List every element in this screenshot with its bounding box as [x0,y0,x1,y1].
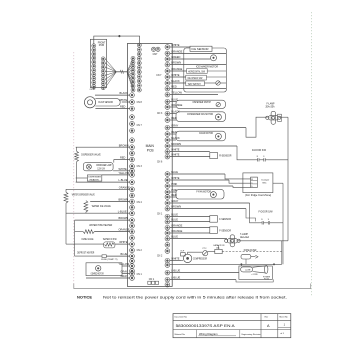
svg-text:CN7: CN7 [153,53,158,56]
svg-text:BLUE: BLUE [171,235,178,239]
condenser fan motor M2 [215,114,221,120]
svg-text:BROWN: BROWN [119,198,129,202]
water in switch label [103,238,117,241]
svg-text:Sheet No: Sheet No [279,315,288,318]
svg-text:CN 6: CN 6 [157,162,163,164]
OLP protector [180,251,185,256]
thermal fuse F1 [75,252,130,261]
svg-text:5830000013397S ASP EN A: 5830000013397S ASP EN A [176,323,235,328]
svg-text:120V 1W: 120V 1W [97,169,105,171]
svg-text:CN 7: CN 7 [156,75,162,77]
svg-text:L-BLUE: L-BLUE [119,178,128,182]
cube valve heater coil [75,228,130,234]
svg-text:YELLOW: YELLOW [119,171,130,175]
test switch contact [216,81,220,85]
svg-text:BLACK: BLACK [171,136,180,140]
ice check switch box [186,75,207,80]
wire ORANGE dispenser switch [170,103,183,107]
wire RED flow sensor [95,105,129,109]
wire YELLOW dispenser heater [102,171,130,175]
title block rev header [265,316,269,318]
svg-text:DISPENSER LAMP: DISPENSER LAMP [96,164,112,167]
svg-text:RED: RED [171,193,177,197]
wire WHITE to ice check switch [170,73,226,77]
svg-text:PCB: PCB [147,149,155,153]
svg-text:CN 4: CN 4 [137,202,143,204]
ice sensor box [190,46,212,51]
svg-text:F-DOOR S/W: F-DOOR S/W [259,212,274,214]
compressor wiring [181,252,202,260]
F-lamp symbol [266,111,281,124]
wire WHITE to compressor [170,257,181,261]
svg-text:HEATER: HEATER [90,178,100,181]
svg-text:CN 7: CN 7 [137,125,143,127]
wire BLUE to dispenser switch [170,98,178,102]
title block sheet 1 [284,322,286,326]
wire PTC to capacitor [208,251,215,253]
main PCB left connector column pins [130,93,135,281]
svg-text:GREEN: GREEN [171,55,180,59]
main PCB box U1 [127,44,172,287]
svg-text:DISPENSER VALVE: DISPENSER VALVE [81,154,101,157]
wire WHITE to ice sensor [170,43,190,47]
svg-text:BROWN: BROWN [119,216,129,220]
svg-text:WHITE: WHITE [171,153,180,157]
F-door switch label [259,212,274,214]
wire RED F-fan [170,193,177,197]
svg-text:WHITE: WHITE [119,167,128,171]
svg-text:CN 1: CN 1 [157,214,163,216]
svg-text:YELLOW: YELLOW [171,91,182,95]
damper label [262,178,270,184]
F-lamp label [266,103,275,109]
wire noise filter down [241,259,246,266]
svg-text:TEST SWITCH: TEST SWITCH [188,84,201,86]
svg-text:(For fridge Cool Zone): (For fridge Cool Zone) [245,194,271,197]
wire L-BLUE water ice valve [66,209,129,213]
title block document number [176,323,235,328]
F-sensor box 1 [210,216,232,223]
svg-text:DEFROST HEATER: DEFROST HEATER [77,251,95,254]
svg-text:GRAY: GRAY [171,199,178,203]
border frame bottom edge [74,284,311,289]
border frame right edge [311,12,313,296]
connector label CN3 right [157,113,163,115]
water in switch [75,240,130,248]
ice maker motor M1 [211,55,217,61]
svg-text:BLUE: BLUE [171,170,178,174]
wire front PCB to main PCB CN [94,36,140,44]
svg-text:F-SENSOR: F-SENSOR [219,230,231,232]
cube valve label [81,238,93,241]
wire BROWN to F-door area [170,205,256,222]
geared motor box [86,263,122,276]
defrost heater label [77,251,95,254]
svg-text:L-BLUE: L-BLUE [118,209,127,213]
damper assembly box [243,173,273,193]
svg-text:WHITE: WHITE [171,257,180,261]
ice maker motor label [196,65,218,68]
svg-text:GRAY: GRAY [121,274,128,278]
svg-text:2EA+2EA: 2EA+2EA [266,106,275,109]
svg-text:CN 1: CN 1 [137,274,143,276]
svg-text:BLUE: BLUE [121,252,128,256]
svg-text:ICE CHECK S/W: ICE CHECK S/W [187,78,203,80]
connector label CN2 [137,250,143,252]
svg-text:ORANGE: ORANGE [171,50,182,54]
svg-text:BLACK: BLACK [171,79,180,83]
wire BLACK to condenser fan [170,110,180,114]
right bus wire 2 [282,183,284,264]
main PCB label [146,144,155,153]
svg-text:RED: RED [171,85,177,89]
wire YELLOW icemaker [170,91,218,95]
wire RED to R-fan [170,130,177,134]
svg-text:CN-DC: CN-DC [90,89,96,91]
svg-text:BLACK: BLACK [171,110,180,114]
svg-text:L-BLUE: L-BLUE [171,269,180,273]
svg-text:CN 2: CN 2 [157,256,163,258]
T-lamp symbol [225,235,241,247]
wire WHITE to R-sensor [170,148,210,152]
svg-text:Engineering Revision: Engineering Revision [242,334,261,336]
svg-text:F-FAN MOTOR: F-FAN MOTOR [196,190,211,193]
R-fan motor M3 [215,133,221,139]
wire L-BLUE2 bottom [170,276,273,282]
noise filter label [244,250,257,252]
border frame left edge [73,52,75,289]
wire GRAY to F-door switch [170,199,260,223]
svg-text:CONDENSER FAN MOTOR: CONDENSER FAN MOTOR [187,113,213,116]
svg-text:Rev: Rev [265,316,269,318]
dispenser switch box [176,100,225,108]
R-door switch label [252,150,267,152]
R-fan motor box [176,131,225,141]
svg-text:R-FAN MOTOR: R-FAN MOTOR [199,132,213,135]
svg-text:GEARED MOTOR: GEARED MOTOR [91,272,104,275]
svg-text:PTC: PTC [203,248,208,250]
junction dot on top wire [119,35,121,37]
wire BLUE to damper [170,170,251,179]
wire BROWN to R-door switch [170,142,255,160]
wire BLUE2 F-sensor1 [170,218,210,222]
front PCB box U2 [90,39,106,89]
wire ORANGE2 F-sensor2 [170,229,210,233]
svg-text:CN 3: CN 3 [137,166,143,168]
dispenser switch contact [216,102,220,106]
wire BROWN icemaker [170,61,226,65]
svg-text:CN 8: CN 8 [137,102,143,104]
icemaker assembly box [184,48,227,92]
svg-text:Damper: Damper [262,178,270,181]
svg-text:WHITE: WHITE [171,176,180,180]
connector label CN6 right [157,162,163,164]
connector label CN1 right [157,214,163,216]
dispenser lamp box [83,163,113,171]
PTC starter [203,248,208,256]
svg-text:PCB: PCB [99,45,105,47]
ribbon cable trunk wire [116,70,127,74]
wire F-door switch to bus2 [273,222,284,224]
F-sensor box 2 [210,227,232,234]
title block engineering revision [242,334,261,336]
svg-text:R-DOOR S/W: R-DOOR S/W [252,150,267,152]
wire damper to bus2 [273,182,283,184]
svg-text:FLOW SENSOR: FLOW SENSOR [98,102,113,104]
wire BLACK R-fan [170,136,180,140]
wire BROWN water ice valve [86,198,129,202]
R-sensor box [210,152,232,158]
svg-text:CN 1: CN 1 [149,278,155,281]
title block frame [173,314,291,338]
svg-text:WATER ICE VALVE: WATER ICE VALVE [92,205,111,208]
wire T-lamp to bus [238,240,288,242]
connector label CN7b [137,125,143,127]
front PCB ribbon connector pins [101,57,105,90]
svg-text:OLP: OLP [180,251,185,253]
wire GRAY to R-door switch [170,117,268,137]
dispenser lamp LP1 [86,164,112,171]
water ice valve coil L3 [84,201,111,213]
svg-text:PINK: PINK [171,188,177,192]
title block document no header [175,315,188,318]
svg-text:WHITE: WHITE [119,240,128,244]
svg-text:T-LAMP: T-LAMP [240,233,248,236]
compressor motor M5 [183,254,207,262]
svg-text:YELLOW: YELLOW [119,262,130,266]
svg-text:BROWN: BROWN [171,142,181,146]
damper mode box [251,177,258,188]
svg-text:ORANGE: ORANGE [119,185,130,189]
svg-text:BLACK: BLACK [120,91,129,95]
main PCB connector pins CN9 left-top [131,56,135,92]
F-door switch SW2 [260,219,273,224]
svg-text:ORANGE: ORANGE [119,228,130,232]
T-lamp label [240,233,249,239]
wire WHITE dispenser lamp [113,167,129,171]
svg-text:L-LINE: L-LINE [245,269,251,271]
wire PINK to F-fan [170,188,178,192]
svg-text:NOISE FILTER: NOISE FILTER [244,250,257,252]
notice text [77,295,287,299]
connector label CN3 [137,166,143,168]
title block sheet of [280,333,284,335]
wire F-lamp to right bus [279,116,288,118]
wire BLACK to test switch [170,79,226,83]
power cord label [263,276,271,280]
dispenser heater box [76,175,102,182]
F-lamp holder box [278,114,282,121]
right bus wire 1 [282,117,288,264]
wire WHITE flow sensor [119,98,129,102]
wire GRAY geared motor [121,270,130,274]
svg-text:L-BLUE: L-BLUE [171,276,180,280]
wire ORANGE to ice sensor [170,50,226,54]
svg-text:MAIN: MAIN [146,144,155,148]
wire RED condenser fan [170,116,177,120]
svg-text:ICE MAKER MOTOR: ICE MAKER MOTOR [196,65,218,68]
wire L-BLUE to power box [170,269,239,273]
wire BROWN dispenser valve [76,143,130,147]
horizontal switch box [187,69,208,74]
flow sensor FS1 [84,97,120,108]
wire RED icemaker [170,85,226,89]
noise filter box [241,254,258,259]
svg-text:NOTICE: NOTICE [77,295,92,299]
ribbon cable fan from front PCB [105,59,116,88]
svg-text:F-SENSOR: F-SENSOR [219,219,231,221]
connector label CN7 right [156,75,162,77]
svg-text:BROWN: BROWN [119,143,129,147]
svg-text:CN 3: CN 3 [157,113,163,115]
wire ORANGE to F-sensor2 [170,224,210,228]
connector label CN2 right [157,256,163,258]
svg-text:+ CORD: + CORD [251,274,259,276]
svg-text:RED: RED [171,130,177,134]
svg-text:DISPENSER SWITCH: DISPENSER SWITCH [193,102,212,104]
svg-text:WHITE: WHITE [171,43,180,47]
wire R-door switch to bus [268,159,288,161]
wire GREEN to ice maker motor [170,55,211,59]
svg-text:WHITE: WHITE [171,73,180,77]
svg-text:HORIZONTAL S/W: HORIZONTAL S/W [188,70,206,73]
wire neutral row to bus [170,264,282,266]
wire YELLOW geared motor [119,262,130,266]
wire BLUE to F-sensor1 [170,213,210,217]
main PCB bottom connector CN1 [148,278,159,285]
wire GRAY2 bottom [86,274,129,278]
wire capacitor up [218,245,220,249]
left bus wire wph [74,220,76,256]
power assembly box [239,266,272,279]
connector label CN4 [137,202,143,204]
water dispenser valve coil L2 [64,189,75,244]
water pipe heater label [89,224,112,227]
svg-text:ICE SENSOR: ICE SENSOR [192,49,209,51]
condenser fan motor box [176,112,225,122]
connector label CN8 [137,102,143,104]
svg-text:WHITE: WHITE [171,148,180,152]
front PCB connector strip pins [92,44,96,89]
R-door switch SW1 [255,156,268,161]
svg-text:R-SENSOR: R-SENSOR [219,156,232,158]
title block rev value [267,324,270,328]
wire BROWN water pipe heater [75,216,130,220]
flow sensor tiny caption [90,89,96,91]
wire BLUE to T-lamp [170,235,227,239]
title block wiring diagram [198,332,236,336]
wire WHITE2 to R-sensor [170,153,210,157]
title block material no [175,333,186,336]
svg-text:COMPRESSOR: COMPRESSOR [193,258,207,260]
svg-text:ORANGE: ORANGE [171,229,182,233]
main PCB right connector column pins [165,45,170,287]
svg-text:DISPENSER: DISPENSER [88,177,101,179]
F-fan motor M4 [210,192,216,198]
dispenser valve coil [75,147,101,182]
wire RED dispenser lamp [114,156,130,163]
water dispenser valve label [72,194,95,197]
svg-text:WHITE: WHITE [119,98,128,102]
svg-text:CUBE VALVE: CUBE VALVE [81,238,93,241]
svg-text:ORANGE: ORANGE [171,103,182,107]
capacitor C1 [213,244,225,253]
svg-text:RED: RED [171,116,177,120]
svg-text:F-LAMP: F-LAMP [267,103,275,106]
wire PINK to damper [170,182,251,187]
svg-text:BLUE: BLUE [171,213,178,217]
svg-text:Wiring Diagram: Wiring Diagram [199,332,218,336]
wire ORANGE water dispenser valve [66,185,130,189]
svg-text:RED: RED [120,156,126,160]
title block sheet header [279,315,288,318]
svg-text:FRONT: FRONT [98,42,106,44]
svg-text:GRAY: GRAY [121,270,128,274]
main PCB connector pins CN10 top [137,43,141,92]
svg-text:GRAY: GRAY [171,124,178,128]
svg-text:PLUG: PLUG [264,279,270,281]
ribbon cable fan to main PCB [127,58,133,90]
svg-text:RED: RED [120,105,126,109]
svg-text:WATER DISPENSER VALVE: WATER DISPENSER VALVE [72,194,95,197]
svg-text:CN 2: CN 2 [137,250,143,252]
wire L-BLUE dispenser return [76,178,130,182]
svg-text:1EA+1EA: 1EA+1EA [240,236,249,239]
F-fan motor box [176,189,224,199]
svg-text:ORANGE: ORANGE [171,224,182,228]
svg-text:BLUE: BLUE [171,98,178,102]
power cord symbol [241,265,268,276]
svg-text:BROWN: BROWN [171,205,181,209]
wire capacitor to bus2 dashed [222,251,282,253]
svg-text:Material No: Material No [175,333,186,336]
svg-text:BROWN: BROWN [171,61,181,65]
damper caption [245,194,271,197]
geared motor M6 [91,266,104,276]
svg-text:M/C: M/C [263,183,267,185]
svg-text:BLUE: BLUE [171,218,178,222]
svg-text:WATER IN S/W: WATER IN S/W [103,238,117,241]
wire ORANGE to horizontal switch [170,67,226,71]
wire WHITE to damper [170,176,251,183]
svg-text:PINK: PINK [171,182,177,186]
svg-text:FUSE (TEMP 77): FUSE (TEMP 77) [101,259,118,261]
svg-text:ORANGE: ORANGE [171,67,182,71]
svg-text:WATER PIPE HEATER: WATER PIPE HEATER [89,224,112,227]
connector label CN1 left [137,274,143,276]
svg-text:Document No: Document No [175,315,188,318]
connector CN7 symbol [152,47,161,56]
wire BLACK flow sensor [95,91,129,98]
svg-text:Not to reinsert the power supp: Not to reinsert the power supply cord wi… [103,295,287,299]
test switch box [186,81,205,86]
